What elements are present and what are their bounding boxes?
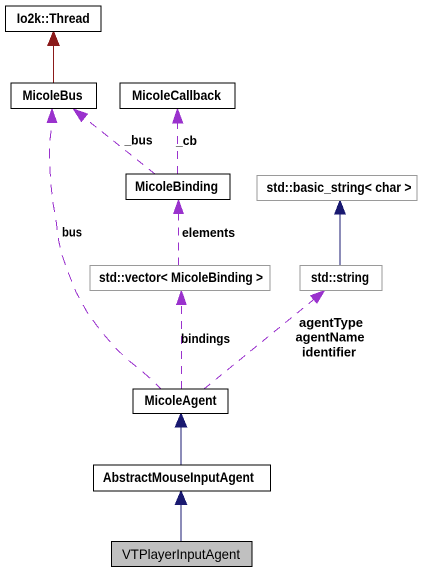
- svg-text:_bus: _bus: [124, 133, 153, 148]
- svg-text:identifier: identifier: [302, 345, 356, 360]
- svg-text:agentType: agentType: [299, 315, 363, 330]
- svg-text:_cb: _cb: [175, 133, 197, 148]
- svg-text:MicoleBus: MicoleBus: [23, 87, 83, 103]
- svg-text:elements: elements: [182, 225, 235, 240]
- svg-text:AbstractMouseInputAgent: AbstractMouseInputAgent: [103, 469, 254, 485]
- svg-text:Io2k::Thread: Io2k::Thread: [17, 10, 90, 26]
- svg-text:bus: bus: [62, 225, 82, 240]
- svg-text:std::basic_string< char >: std::basic_string< char >: [267, 179, 412, 195]
- svg-text:std::vector< MicoleBinding >: std::vector< MicoleBinding >: [99, 269, 263, 285]
- svg-text:bindings: bindings: [181, 331, 230, 346]
- svg-text:std::string: std::string: [311, 269, 369, 285]
- svg-text:MicoleBinding: MicoleBinding: [135, 178, 218, 194]
- svg-text:MicoleAgent: MicoleAgent: [145, 392, 217, 408]
- svg-text:MicoleCallback: MicoleCallback: [132, 87, 221, 103]
- svg-text:agentName: agentName: [296, 330, 365, 345]
- svg-text:VTPlayerInputAgent: VTPlayerInputAgent: [122, 546, 240, 562]
